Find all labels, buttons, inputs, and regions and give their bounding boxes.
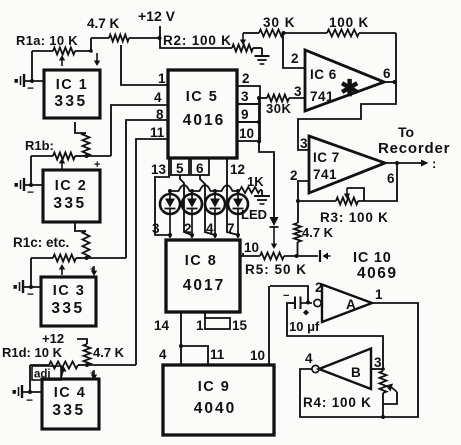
- op IC3 LM335 box: [41, 277, 96, 326]
- ground (R2): [261, 48, 263, 56]
- label plus (C1): [303, 310, 309, 316]
- svg-text:10: 10: [239, 126, 254, 141]
- wire R1a junction up to 4.7K: [90, 38, 92, 51]
- svg-text:4.7 K: 4.7 K: [87, 16, 120, 31]
- node LED D1 cathode dot: [168, 233, 172, 237]
- wire J3 to IC3 minus: [24, 286, 41, 288]
- svg-text:12: 12: [230, 162, 245, 177]
- svg-text:IC 9: IC 9: [198, 379, 231, 395]
- svg-text:4016: 4016: [183, 112, 225, 129]
- svg-text:6: 6: [383, 66, 391, 81]
- svg-text:IC 4: IC 4: [54, 385, 87, 401]
- wire IC9 pin10 riser: [268, 286, 270, 365]
- wire IC8 pin14 to IC9 pin4: [180, 312, 182, 365]
- svg-text:335: 335: [52, 402, 85, 419]
- svg-text:741: 741: [313, 167, 337, 182]
- LED D3 indicator: [205, 194, 225, 214]
- svg-text:+: +: [90, 368, 95, 378]
- node IC4 minus dot: [28, 390, 32, 394]
- pin tab 9 (IC5): [237, 104, 260, 122]
- resistor 4.7K (IC1 pull-up) zigzag: [109, 35, 129, 42]
- node R4 bottom dot: [381, 415, 385, 419]
- svg-text:B: B: [351, 365, 361, 380]
- svg-text:−: −: [283, 290, 289, 302]
- potentiometer R3 100K zigzag: [336, 198, 358, 205]
- svg-text:LED: LED: [241, 207, 267, 222]
- wire IC7 pin2: [298, 181, 309, 201]
- node LED D4 cathode dot: [236, 233, 240, 237]
- node IC3 minus dot: [29, 285, 33, 289]
- svg-text:−: −: [27, 185, 34, 199]
- svg-text:Recorder: Recorder: [378, 140, 450, 157]
- node IC6 inverting input junction: [282, 31, 286, 35]
- wire IC5 pin11 to IC4 node: [136, 139, 168, 365]
- svg-text:3: 3: [294, 84, 302, 99]
- arrow IC1 plus input: [96, 53, 98, 62]
- resistor 30K (input) zigzag: [259, 30, 283, 37]
- LED D2 indicator: [182, 194, 202, 214]
- svg-text:1: 1: [196, 318, 204, 333]
- svg-text:11: 11: [150, 125, 165, 140]
- svg-text::: :: [432, 156, 436, 171]
- svg-text:IC 8: IC 8: [185, 253, 218, 269]
- svg-text:4040: 4040: [194, 400, 236, 417]
- svg-text:5: 5: [176, 161, 184, 176]
- wire R1c left lead down: [30, 258, 32, 287]
- pin tab 6 (IC5 bottom): [191, 158, 209, 175]
- wire IC5 pin1 riser: [121, 45, 168, 85]
- svg-text:R4: 100 K: R4: 100 K: [303, 395, 372, 410]
- arrow IC3 adj wiper: [61, 268, 63, 275]
- wire diode to R5 wiper arrow: [273, 227, 275, 245]
- resistor 4.7K (IC3 pull-up) vertical: [75, 223, 86, 231]
- R4 wiper arrow and loop: [390, 386, 397, 392]
- svg-text:741: 741: [310, 89, 334, 104]
- node LED D1 anode dot: [168, 189, 172, 193]
- op IC5 4016 box: [168, 70, 237, 158]
- box adj label: [32, 366, 61, 380]
- op IC1 LM335 box: [44, 70, 100, 118]
- svg-text:335: 335: [53, 195, 86, 212]
- node IC3 plus junction: [85, 256, 89, 260]
- wire R1d left lead down: [29, 365, 31, 392]
- op IC2 LM335 box: [43, 170, 100, 222]
- wire IC6 output: [384, 81, 397, 83]
- resistor R1d zigzag: [49, 362, 78, 369]
- capacitor C1 10uF: [294, 297, 296, 310]
- node +12V junction dot: [158, 36, 162, 40]
- svg-text:R1d: 10 K: R1d: 10 K: [2, 345, 63, 360]
- node IC7 output dot: [395, 161, 399, 165]
- svg-text:+12: +12: [42, 331, 64, 346]
- svg-text:4: 4: [154, 90, 162, 105]
- jack J5 (R5 output): [319, 250, 321, 262]
- svg-text:IC 6: IC 6: [310, 67, 337, 82]
- svg-text:3: 3: [241, 89, 249, 104]
- wire +12 tick to 4.7K: [77, 339, 87, 344]
- svg-text:R3: 100 K: R3: 100 K: [320, 210, 389, 225]
- resistor R1b zigzag: [53, 153, 75, 160]
- svg-text:1: 1: [375, 287, 383, 302]
- node pin9 bus dot: [257, 120, 261, 124]
- node IC7 pin2/R3 junction: [296, 199, 300, 203]
- wire clock to IC9 pin11: [181, 346, 208, 365]
- LED D4 indicator: [228, 194, 248, 214]
- potentiometer R5 50K zigzag: [260, 253, 284, 260]
- wire IC4 node to IC5 pin11: [87, 364, 136, 366]
- svg-text:335: 335: [54, 93, 87, 110]
- svg-text:R2: 100 K: R2: 100 K: [163, 33, 232, 48]
- svg-text:3: 3: [152, 221, 160, 236]
- R3 wiper arrow and loop: [346, 188, 348, 195]
- node C1/inverter A input junction: [306, 301, 310, 305]
- wire IC5 output bus (pins 3,9,10): [259, 98, 274, 217]
- resistor R1c zigzag: [53, 255, 76, 262]
- svg-text:10: 10: [244, 240, 259, 255]
- svg-text:2: 2: [291, 51, 299, 66]
- svg-text:IC 7: IC 7: [313, 150, 340, 165]
- svg-text:IC 1: IC 1: [56, 77, 89, 93]
- op-amp IC6 triangle: [305, 50, 384, 111]
- wire +12V feed tick: [159, 26, 161, 38]
- wire R1a left lead down: [31, 51, 33, 81]
- node LED D3 anode dot: [213, 189, 217, 193]
- op IC9 4040 box: [163, 365, 274, 435]
- wire J4 to IC4 minus: [23, 391, 42, 393]
- wire R5 to output jack: [284, 255, 318, 257]
- arrow IC4 plus input: [93, 370, 95, 376]
- wire IC6 output to IC7 pin3: [298, 82, 396, 150]
- wire IC3 node to IC5 pin8: [86, 257, 126, 259]
- svg-text:IC 2: IC 2: [55, 178, 88, 194]
- wire feedback to IC6 output: [395, 33, 397, 81]
- jack J4 (sensor 4 input): [13, 390, 16, 394]
- wire +12V to R2: [160, 38, 232, 48]
- svg-text:4.7 K: 4.7 K: [93, 345, 125, 360]
- svg-text:10 μf: 10 μf: [289, 319, 320, 334]
- wire pin5 to node Q1: [180, 175, 192, 235]
- svg-text:10: 10: [250, 348, 265, 363]
- svg-text:6: 6: [387, 171, 395, 186]
- wire LED common rail (with crossover hops): [170, 185, 239, 191]
- svg-text:30 K: 30 K: [263, 15, 296, 30]
- svg-text:4.7 K: 4.7 K: [302, 225, 334, 240]
- wire A output to B input rail: [300, 303, 418, 417]
- svg-text:A: A: [346, 297, 356, 312]
- node IC2 plus junction: [85, 154, 89, 158]
- wire R2 wiper to 30K: [243, 32, 259, 34]
- node LED D3 cathode dot: [213, 233, 217, 237]
- svg-text:−: −: [26, 393, 33, 407]
- wire R2 right lead: [253, 47, 262, 49]
- wire IC6 pin2 drop: [283, 33, 306, 68]
- svg-text:3: 3: [374, 355, 382, 370]
- wire pin12 to node Q3: [227, 158, 238, 235]
- wire IC5 pin4 to IC2 node: [111, 105, 168, 156]
- inverter IC10B triangle: [319, 349, 371, 390]
- svg-text:✱: ✱: [340, 75, 359, 101]
- arrow IC3 plus input: [93, 266, 95, 272]
- svg-text:2: 2: [290, 168, 298, 183]
- svg-text:+12 V: +12 V: [138, 8, 176, 24]
- node B output dot: [381, 367, 385, 371]
- node pin10 bus dot: [257, 140, 261, 144]
- svg-text:To: To: [398, 124, 414, 140]
- svg-text:IC 10: IC 10: [353, 250, 392, 266]
- svg-text:30K: 30K: [266, 101, 291, 116]
- node IC1 minus dot: [30, 79, 34, 83]
- inverter B bubble: [312, 365, 319, 372]
- node LED D2 cathode dot: [190, 233, 194, 237]
- arrow IC1 adj wiper: [61, 59, 63, 66]
- wire IC7 output to R3: [358, 163, 397, 201]
- wire IC8 pin10 to R5: [240, 255, 260, 257]
- arrow R1d adj wiper: [61, 371, 63, 378]
- svg-text:R1c: etc.: R1c: etc.: [13, 235, 69, 250]
- node IC2 minus dot: [29, 183, 33, 187]
- jack J1 (sensor 1 input): [15, 79, 18, 83]
- resistor 100K (feedback) zigzag: [327, 30, 359, 37]
- svg-text:13: 13: [151, 162, 167, 177]
- svg-text:4: 4: [305, 351, 313, 366]
- svg-text:15: 15: [232, 318, 248, 333]
- wire pin6 to node Q2: [200, 175, 215, 235]
- svg-text:14: 14: [154, 318, 170, 333]
- LED D1 indicator: [160, 194, 180, 214]
- svg-text:9: 9: [241, 107, 249, 122]
- wire pin13 to node Q0: [155, 158, 170, 235]
- svg-text:−: −: [27, 287, 34, 301]
- wire J2 to IC2 minus: [25, 184, 43, 186]
- node pin3 bus dot: [257, 96, 261, 100]
- svg-text:IC 3: IC 3: [53, 283, 86, 299]
- wire B output to R4: [371, 368, 383, 370]
- diode D5: [270, 217, 279, 226]
- svg-text:4069: 4069: [357, 265, 397, 282]
- svg-text:4017: 4017: [183, 277, 225, 294]
- pin tab 10 (IC5): [237, 122, 260, 141]
- node IC6 output dot: [393, 80, 397, 84]
- potentiometer R4 100K zigzag: [380, 371, 387, 393]
- resistor 30K (from pin3) zigzag: [267, 95, 289, 102]
- resistor R1a zigzag: [53, 48, 75, 55]
- inverter IC10A triangle: [322, 285, 372, 323]
- inverter A bubble: [314, 299, 321, 306]
- ground (1K): [261, 190, 263, 196]
- svg-text:3: 3: [300, 136, 308, 151]
- svg-text:6: 6: [196, 161, 204, 176]
- node IC4 plus junction: [85, 363, 89, 367]
- svg-text:1: 1: [158, 71, 166, 86]
- svg-text:11: 11: [210, 347, 225, 362]
- wire IC5 pin8 to IC3 node: [126, 120, 168, 258]
- svg-text:R1b:: R1b:: [25, 138, 54, 153]
- potentiometer R2 100K zigzag: [232, 45, 253, 52]
- node R1a/4.7K junction: [89, 49, 93, 53]
- svg-text:2: 2: [242, 71, 250, 86]
- node LED D4 anode dot: [236, 189, 240, 193]
- svg-text:1K: 1K: [247, 174, 264, 189]
- arrow IC2 adj wiper: [61, 162, 63, 169]
- wire J1 to IC1 minus: [25, 80, 44, 82]
- jack J3 (sensor 3 input): [14, 285, 17, 289]
- wire C1 to oscillator rail: [287, 303, 383, 369]
- wire R1b left lead down: [30, 156, 32, 185]
- node R5/4.7K junction: [295, 254, 299, 258]
- R2 wiper arrow: [242, 33, 244, 41]
- op-amp IC7 triangle: [309, 136, 385, 193]
- resistor 4.7K (IC2 pull-up) vertical: [75, 122, 86, 133]
- pin tab 5 (IC5 bottom): [171, 158, 189, 175]
- svg-text:4: 4: [159, 347, 167, 362]
- svg-text:R5: 50 K: R5: 50 K: [245, 262, 307, 277]
- wire IC7 output arrow: [385, 162, 423, 164]
- svg-text:335: 335: [51, 300, 84, 317]
- node LED D2 anode dot: [190, 189, 194, 193]
- svg-text:+: +: [90, 264, 95, 274]
- pin tab 3 (IC5): [237, 86, 260, 104]
- resistor 4.7K (R5 chain) vertical: [297, 201, 299, 223]
- resistor 4.7K (IC4 pull-up) vertical: [84, 344, 91, 365]
- svg-text:R1a: 10 K: R1a: 10 K: [16, 33, 78, 48]
- op IC8 4017 box: [166, 240, 240, 312]
- wire IC8 pin1-15 reset loop: [204, 312, 206, 318]
- node clock junction dot: [179, 344, 183, 348]
- jack J2 (sensor 2 input): [15, 183, 18, 187]
- wire A input top loop: [270, 286, 308, 302]
- svg-text:2: 2: [315, 280, 323, 295]
- wire IC2 node to IC5 pin4: [87, 155, 111, 157]
- resistor 1K zigzag: [240, 187, 260, 193]
- op IC4 LM335 box: [42, 379, 99, 429]
- svg-text:−: −: [27, 81, 34, 95]
- svg-text:IC 5: IC 5: [186, 89, 219, 105]
- wire IC5 pin3 to 30K: [260, 97, 267, 99]
